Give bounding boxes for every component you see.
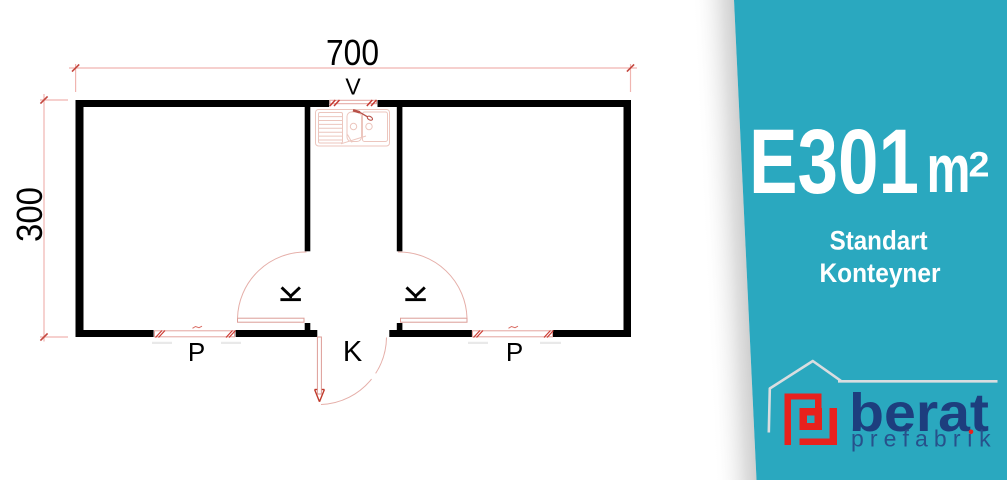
- svg-text:2: 2: [969, 146, 990, 185]
- left wall: [76, 100, 84, 337]
- door right room: swing arc: [398, 252, 467, 318]
- svg-text:E301: E301: [749, 111, 919, 213]
- door K label left (rotated K): [280, 287, 301, 301]
- logo roofline: [838, 380, 998, 383]
- door left room: leaf: [238, 318, 305, 322]
- extension line top of 300: [40, 99, 68, 101]
- window P right end hatches: [474, 331, 554, 338]
- interior wall right lower stub: [397, 323, 403, 331]
- faint dimension remnants under windows: [152, 342, 561, 344]
- window P left symbol: [155, 331, 235, 337]
- interior wall left: [305, 107, 311, 251]
- teal side panel with diagonal edge: [692, 0, 1007, 480]
- svg-text:Standart: Standart: [830, 225, 928, 255]
- right wall: [624, 100, 632, 337]
- svg-text:P: P: [506, 337, 523, 367]
- door bottom center: leaf: [317, 337, 321, 394]
- extension line right: [630, 64, 632, 92]
- svg-text:Konteyner: Konteyner: [820, 258, 941, 288]
- door bottom center: red arrow: [315, 390, 325, 402]
- door left room: swing arc: [238, 252, 307, 318]
- logo red i-dot: [969, 430, 974, 435]
- interior wall left lower stub: [305, 323, 311, 331]
- sink unit: [316, 110, 390, 147]
- svg-text:K: K: [343, 336, 363, 368]
- extension line left: [75, 64, 77, 92]
- top wall right segment: [378, 100, 632, 107]
- window P left end hatches: [156, 331, 236, 338]
- bottom wall segment 3: [389, 330, 472, 337]
- interior wall right: [397, 107, 403, 251]
- tick right of 700: [627, 64, 634, 71]
- dimension line 300: [43, 94, 45, 342]
- svg-text:V: V: [345, 73, 361, 99]
- top wall left segment: [76, 100, 330, 107]
- tick top of 300: [40, 96, 47, 103]
- door K label right (rotated K): [405, 287, 426, 301]
- window V end hatch left: [330, 100, 340, 106]
- door right room: leaf: [401, 318, 468, 322]
- sink faucet: [353, 110, 373, 121]
- window P right tiny mark: [509, 326, 519, 328]
- extension line bottom of 300: [40, 336, 68, 338]
- window V symbol in top wall: [330, 100, 377, 103]
- bottom wall segment 1: [76, 330, 154, 337]
- window P left tiny mark: [193, 326, 203, 328]
- logo house outline: [769, 361, 841, 433]
- bottom wall segment 4: [553, 330, 631, 337]
- svg-text:m: m: [927, 131, 971, 207]
- tick left of 700: [72, 64, 79, 71]
- svg-text:P: P: [188, 337, 205, 367]
- tick bottom of 300: [40, 333, 47, 340]
- bottom wall segment 2: [236, 330, 318, 337]
- svg-text:700: 700: [326, 32, 379, 73]
- logo red b-mark: [785, 394, 838, 446]
- door bottom center: swing arc (dashed): [321, 338, 387, 405]
- window P right symbol: [473, 331, 553, 337]
- svg-text:prefabrık: prefabrık: [851, 426, 997, 452]
- window V end hatch right: [367, 100, 377, 106]
- dimension line 700: [69, 67, 637, 69]
